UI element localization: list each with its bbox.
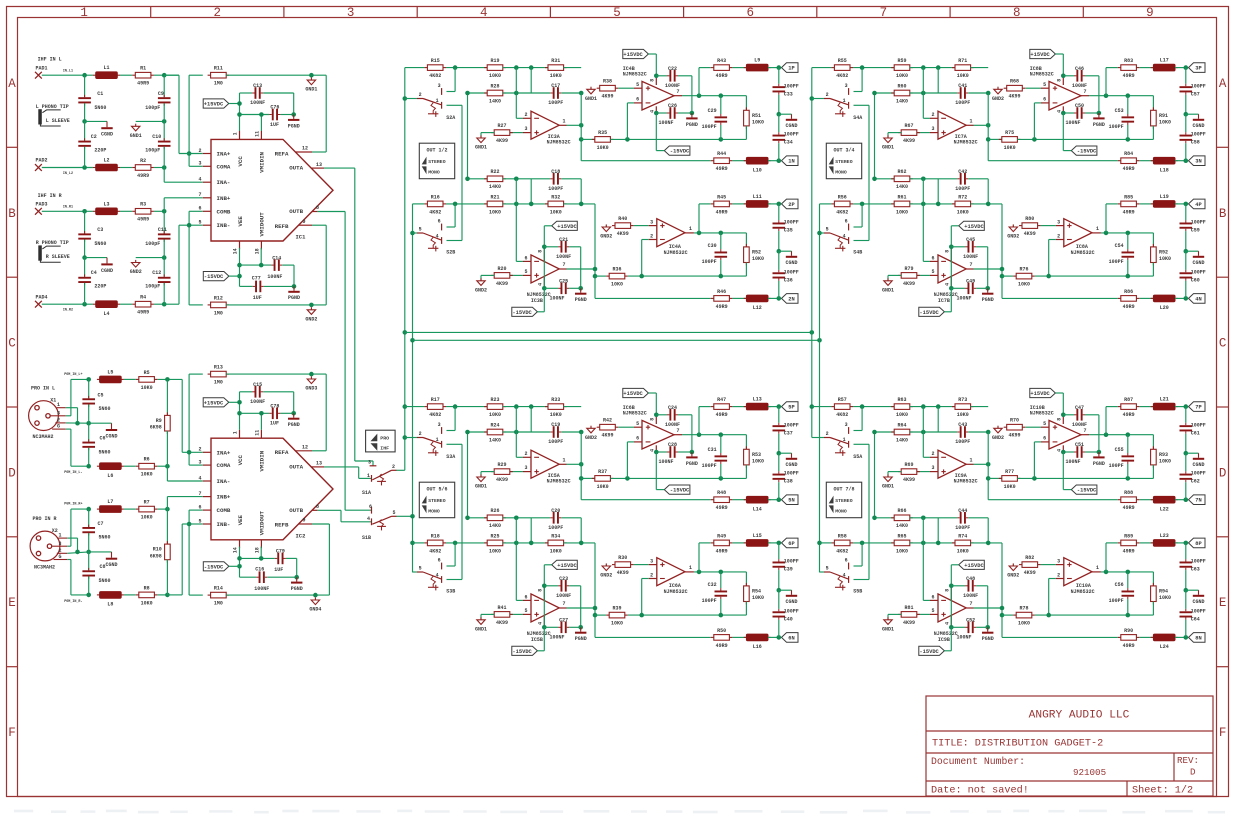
resistor R79: [898, 274, 901, 276]
junction: [860, 541, 865, 546]
junction: [697, 231, 702, 236]
ground GND2: [477, 281, 485, 286]
svg-text:C31: C31: [708, 447, 717, 453]
svg-text:NJM8532C: NJM8532C: [1071, 589, 1095, 595]
resistor R51: [745, 107, 747, 110]
wire up to 2P: [698, 204, 700, 233]
svg-text:5N60: 5N60: [99, 578, 111, 584]
svg-text:8: 8: [537, 250, 543, 253]
svg-text:2: 2: [931, 112, 934, 118]
wire coll cgnd: [779, 250, 792, 252]
capacitor C15: [255, 386, 257, 398]
svg-text:C11: C11: [158, 227, 167, 233]
resistor R25: [484, 542, 487, 544]
junction: [82, 165, 87, 170]
wire sw6 drop: [454, 543, 456, 566]
svg-text:IC1: IC1: [296, 234, 307, 241]
svg-text:1: 1: [367, 473, 370, 479]
wire PR pinG v: [70, 560, 72, 595]
wire r35 r: [610, 138, 746, 140]
wire coll b: [1185, 231, 1187, 251]
junction: [936, 541, 941, 546]
wire row1 b: [446, 67, 487, 69]
ground PGND: [580, 288, 582, 292]
wire pin2 h: [516, 117, 523, 119]
svg-text:G: G: [59, 554, 62, 560]
junction: [777, 296, 782, 301]
svg-text:C24: C24: [668, 405, 677, 411]
wire r52 top: [745, 233, 747, 247]
svg-text:R SLEEVE: R SLEEVE: [46, 254, 70, 260]
svg-text:C59: C59: [1191, 228, 1200, 234]
svg-text:IN_R1: IN_R1: [63, 206, 73, 210]
svg-text:PGND: PGND: [686, 461, 698, 467]
svg-text:100PF: 100PF: [548, 439, 563, 445]
svg-text:IC9B: IC9B: [938, 637, 950, 643]
junction: [1126, 274, 1131, 279]
wire -15l v: [950, 627, 952, 651]
svg-text:4: 4: [944, 622, 950, 625]
wire c2125 v: [987, 247, 989, 288]
switch S4B: [848, 224, 850, 231]
resistor R62: [891, 178, 894, 180]
svg-text:10K0: 10K0: [1159, 595, 1171, 601]
junction: [294, 575, 299, 580]
wire pin6 vert: [1033, 442, 1035, 479]
svg-text:6: 6: [845, 557, 848, 563]
wire bus L2 vertical: [811, 68, 813, 438]
wire r52 bot: [745, 263, 747, 277]
wire PL colc 2: [88, 404, 90, 423]
junction: [82, 255, 87, 260]
wire v2: [874, 93, 876, 179]
svg-text:L7: L7: [107, 499, 113, 505]
svg-text:R52: R52: [752, 250, 761, 256]
junction: [237, 274, 242, 279]
resistor R49: [711, 542, 714, 544]
wire r52 top: [745, 572, 747, 586]
svg-text:R76: R76: [1019, 267, 1028, 273]
svg-text:10K0: 10K0: [611, 282, 623, 288]
wire r36 r: [628, 275, 747, 277]
wire c29 bot: [720, 125, 722, 139]
junction: [82, 302, 87, 307]
svg-text:PGM_IN_R+: PGM_IN_R+: [64, 503, 82, 507]
junction: [872, 91, 877, 96]
wire row2 in: [413, 203, 425, 205]
svg-text:14K0: 14K0: [489, 184, 501, 190]
junction: [1104, 231, 1109, 236]
output flag 1N: [782, 156, 799, 166]
wire r40 r: [634, 564, 649, 566]
wire PR pinG h: [67, 559, 71, 561]
wire c25 r: [569, 626, 581, 628]
svg-text:R38: R38: [603, 79, 612, 85]
svg-text:100PF: 100PF: [548, 100, 563, 106]
svg-text:R62: R62: [897, 169, 906, 175]
wire c30 top: [1127, 233, 1129, 249]
svg-text:R11: R11: [214, 66, 223, 72]
junction: [1000, 267, 1005, 272]
wire out1l h: [567, 268, 596, 270]
junction: [1104, 93, 1109, 98]
wire col c: [1185, 453, 1187, 471]
svg-text:R37: R37: [598, 469, 607, 475]
ground PGND: [987, 288, 989, 292]
wire IC2 OUTA v: [358, 467, 360, 479]
wire PL row2 c: [157, 465, 167, 467]
wire coll a: [778, 204, 780, 220]
output flag 7P: [1189, 402, 1206, 412]
resistor R89: [1118, 542, 1121, 544]
junction: [921, 430, 926, 435]
resistor R57: [831, 406, 834, 408]
wire sw6 drop: [861, 543, 863, 566]
ground CGND: [1198, 453, 1200, 458]
svg-text:R24: R24: [490, 422, 499, 428]
svg-text:R53: R53: [752, 452, 761, 458]
svg-text:C32: C32: [708, 582, 717, 588]
wire c17 r: [561, 431, 581, 433]
wire r51 top: [745, 96, 747, 111]
svg-text:100NF: 100NF: [1065, 120, 1080, 126]
wire r22 l: [468, 178, 488, 180]
wire R cola 3: [84, 258, 86, 277]
wire sw pin2 h: [812, 98, 824, 100]
junction: [514, 404, 519, 409]
resistor R45: [711, 203, 714, 205]
wire 2P a: [1106, 542, 1118, 544]
svg-text:R31: R31: [551, 58, 560, 64]
svg-text:R8: R8: [144, 585, 150, 591]
svg-text:4: 4: [436, 233, 439, 239]
svg-text:STEREO: STEREO: [428, 498, 445, 504]
wire c2125 v: [580, 247, 582, 288]
svg-text:100NF: 100NF: [1072, 83, 1087, 89]
resistor R16: [424, 203, 427, 205]
junction: [514, 202, 519, 207]
svg-text:8N: 8N: [1195, 635, 1201, 641]
junction: [1126, 570, 1131, 575]
wire out2l row: [694, 571, 747, 573]
svg-text:-15VDC: -15VDC: [512, 310, 532, 316]
svg-text:100PF: 100PF: [548, 525, 563, 531]
wire row1 b: [446, 406, 487, 408]
svg-text:100NF: 100NF: [250, 100, 265, 106]
resistor R64: [891, 431, 894, 433]
svg-text:NJM8532C: NJM8532C: [954, 479, 978, 485]
svg-text:1M0: 1M0: [214, 81, 223, 87]
junction: [453, 404, 458, 409]
wire c26 l: [656, 451, 667, 453]
supply flag -15VDC: [512, 307, 538, 316]
wire pin6 h: [627, 441, 634, 443]
wire B row1 in: [812, 67, 832, 69]
svg-text:10K0: 10K0: [489, 412, 501, 418]
svg-text:R34: R34: [551, 533, 560, 539]
inductor L8: [97, 594, 100, 596]
wire sw3 h: [854, 430, 863, 432]
op-amp IC8A: [1056, 219, 1101, 256]
wire out1 h: [567, 463, 582, 465]
junction: [82, 73, 87, 78]
svg-text:R61: R61: [897, 194, 906, 200]
junction: [410, 338, 415, 343]
ground CGND: [791, 114, 793, 119]
svg-text:R55: R55: [838, 58, 847, 64]
svg-text:R48: R48: [717, 490, 726, 496]
svg-text:3: 3: [438, 422, 441, 428]
wire r40 gnd: [1012, 565, 1014, 566]
junction: [82, 119, 87, 124]
svg-text:INA+: INA+: [217, 151, 231, 158]
wire r38 gnd: [590, 427, 592, 428]
ground PGND: [1098, 452, 1100, 456]
wire sw3 drop: [861, 407, 863, 431]
wire pin2l h: [642, 578, 649, 580]
wire R cola 1: [84, 211, 86, 233]
junction: [579, 123, 584, 128]
svg-text:100NF: 100NF: [665, 83, 680, 89]
wire r28 r: [503, 431, 551, 433]
wire IC2 OUTB h2: [341, 521, 372, 523]
wire r22 r: [503, 517, 551, 519]
capacitor C6: [82, 442, 95, 444]
junction: [777, 404, 782, 409]
svg-text:+15VDC: +15VDC: [964, 563, 984, 569]
wire pin2 drop: [922, 407, 924, 458]
wire R14 tie v: [188, 510, 190, 595]
svg-text:REFA: REFA: [275, 150, 289, 157]
wire R11 right: [226, 74, 326, 76]
junction: [1097, 111, 1102, 116]
INA IC2 top pins: [239, 430, 241, 438]
svg-text:INB-: INB-: [217, 521, 231, 528]
svg-text:C: C: [1219, 337, 1227, 351]
wire r27 r: [510, 132, 523, 134]
resistor R18: [424, 542, 427, 544]
svg-text:4K82: 4K82: [836, 548, 848, 554]
wire 1N b: [732, 499, 746, 501]
supply flag +15VDC: [623, 49, 649, 58]
junction: [542, 625, 547, 630]
svg-text:3: 3: [650, 558, 653, 564]
wire -15l v: [543, 627, 545, 651]
svg-text:R65: R65: [897, 533, 906, 539]
capacitor C45: [968, 241, 970, 253]
svg-text:4K99: 4K99: [601, 94, 613, 100]
inductor L5: [97, 378, 100, 380]
junction: [514, 516, 519, 521]
supply flag -15VDC: [664, 146, 690, 155]
svg-text:100NF: 100NF: [665, 422, 680, 428]
svg-text:OUTB: OUTB: [289, 507, 303, 514]
wire R row1 a: [42, 210, 93, 212]
wire row2 c: [503, 203, 548, 205]
svg-text:OUT 7/8: OUT 7/8: [833, 487, 854, 493]
wire PL row1 b: [124, 378, 136, 380]
svg-text:L6: L6: [107, 473, 113, 479]
ground GND2: [307, 310, 315, 315]
svg-text:+15VDC: +15VDC: [204, 400, 224, 406]
wire out2 row: [1089, 95, 1153, 97]
svg-text:1UF: 1UF: [274, 567, 283, 573]
output flag 3N: [1189, 156, 1206, 166]
wire sw pin4 h: [447, 240, 463, 242]
junction: [777, 202, 782, 207]
wire r26 l: [481, 274, 494, 276]
wire c21 r: [569, 246, 581, 248]
junction: [872, 516, 877, 521]
svg-text:7: 7: [1083, 89, 1086, 95]
supply flag -15VDC: [919, 646, 945, 655]
wire +15l v: [543, 226, 545, 288]
svg-text:100PF: 100PF: [784, 608, 799, 614]
svg-text:100PF: 100PF: [955, 186, 970, 192]
svg-text:NJM8532C: NJM8532C: [1030, 411, 1054, 417]
svg-text:6: 6: [438, 557, 441, 563]
svg-text:F: F: [1219, 726, 1227, 740]
wire pin2 h: [923, 456, 930, 458]
junction: [165, 507, 170, 512]
svg-text:10K0: 10K0: [896, 548, 908, 554]
svg-text:10K0: 10K0: [489, 73, 501, 79]
capacitor C20: [553, 512, 555, 524]
wire r38 r: [1025, 426, 1041, 428]
wire col cgnd: [1186, 452, 1199, 454]
wire coll a: [778, 543, 780, 559]
resistor R69: [898, 471, 901, 473]
junction: [465, 430, 470, 435]
wire pin2l v: [1048, 579, 1050, 616]
junction: [936, 202, 941, 207]
wire col b: [1185, 95, 1187, 114]
output flag 7N: [1189, 495, 1206, 505]
wire PL colc 1: [88, 379, 90, 398]
svg-text:C17: C17: [551, 83, 560, 89]
svg-text:L8: L8: [107, 602, 113, 608]
junction: [860, 404, 865, 409]
svg-text:10K0: 10K0: [1004, 145, 1016, 151]
wire sw pin1 h: [447, 104, 463, 106]
svg-text:5: 5: [198, 518, 201, 524]
junction: [410, 541, 415, 546]
resistor R3: [132, 210, 135, 212]
capacitor C64: [1180, 611, 1193, 613]
svg-text:3: 3: [347, 6, 355, 20]
svg-text:5N60: 5N60: [99, 449, 111, 455]
junction: [291, 112, 296, 117]
junction: [403, 435, 408, 440]
svg-text:R9: R9: [156, 418, 162, 424]
svg-text:PGND: PGND: [982, 636, 994, 642]
wire r28 l: [875, 92, 895, 94]
svg-text:L SLEEVE: L SLEEVE: [46, 118, 70, 124]
resistor R22: [484, 178, 487, 180]
wire r36 l: [595, 614, 606, 616]
resistor R84: [1118, 160, 1121, 162]
svg-text:49R9: 49R9: [1123, 73, 1135, 79]
junction: [860, 202, 865, 207]
junction: [403, 96, 408, 101]
svg-text:R10: R10: [153, 547, 162, 553]
wire sw pin1 h: [447, 443, 463, 445]
svg-text:R17: R17: [431, 397, 440, 403]
ground GND2: [602, 566, 610, 571]
svg-text:4: 4: [436, 572, 439, 578]
svg-text:7: 7: [676, 89, 679, 95]
svg-text:100NF: 100NF: [556, 593, 571, 599]
wire pin7 entry: [164, 197, 203, 199]
resistor R67: [898, 132, 901, 134]
svg-text:100PF: 100PF: [702, 598, 717, 604]
junction: [162, 73, 167, 78]
svg-text:S3A: S3A: [446, 454, 455, 460]
svg-text:-15VDC: -15VDC: [670, 488, 690, 494]
svg-text:4K99: 4K99: [903, 281, 915, 287]
svg-text:14K0: 14K0: [896, 184, 908, 190]
wire PR top corner: [71, 508, 89, 510]
svg-text:+15VDC: +15VDC: [1030, 391, 1050, 397]
svg-text:R6: R6: [144, 457, 150, 463]
svg-text:-15VDC: -15VDC: [1077, 488, 1097, 494]
wire r36 l: [1002, 614, 1013, 616]
wire r28 r: [910, 431, 958, 433]
svg-text:L19: L19: [1160, 194, 1169, 200]
wire coll c: [1185, 251, 1187, 270]
wire IC2 OUTB h: [317, 509, 341, 511]
ground GND3: [307, 379, 315, 384]
wire 2N c: [1175, 297, 1186, 299]
svg-text:5P: 5P: [788, 405, 794, 411]
svg-text:R69: R69: [904, 462, 913, 468]
svg-text:4K99: 4K99: [496, 138, 508, 144]
svg-text:5: 5: [1043, 421, 1046, 427]
wire c25 l: [951, 626, 965, 628]
svg-text:R46: R46: [717, 289, 726, 295]
svg-text:C62: C62: [1191, 479, 1200, 485]
svg-text:S2B: S2B: [446, 250, 455, 256]
svg-text:6: 6: [636, 97, 639, 103]
svg-text:-15VDC: -15VDC: [670, 149, 690, 155]
svg-text:R20: R20: [497, 266, 506, 272]
wire pin4 feed v: [163, 168, 165, 183]
svg-text:C50: C50: [1075, 103, 1084, 109]
junction: [1184, 296, 1189, 301]
wire 2N a: [595, 297, 711, 299]
svg-text:1P: 1P: [788, 66, 794, 72]
wire sw pin2 h: [405, 437, 417, 439]
wire up to 1P: [1105, 407, 1107, 435]
junction: [162, 209, 167, 214]
wire r27 gnd: [480, 133, 482, 138]
svg-text:8: 8: [649, 418, 655, 421]
wire IN_L1 corner h: [164, 74, 179, 76]
svg-text:INB+: INB+: [217, 494, 231, 501]
wire c17 drop: [530, 68, 532, 93]
resistor R53: [745, 446, 747, 449]
resistor R70: [1004, 426, 1007, 428]
wire 1N c: [768, 160, 779, 162]
wire c30 bot: [720, 260, 722, 276]
svg-text:2: 2: [524, 112, 527, 118]
svg-text:C40: C40: [784, 616, 793, 622]
wire R row1 c: [154, 210, 164, 212]
wire fbl vert: [594, 543, 596, 638]
wire -15 v: [655, 113, 657, 151]
svg-text:3: 3: [438, 83, 441, 89]
ground PGND: [293, 115, 295, 119]
